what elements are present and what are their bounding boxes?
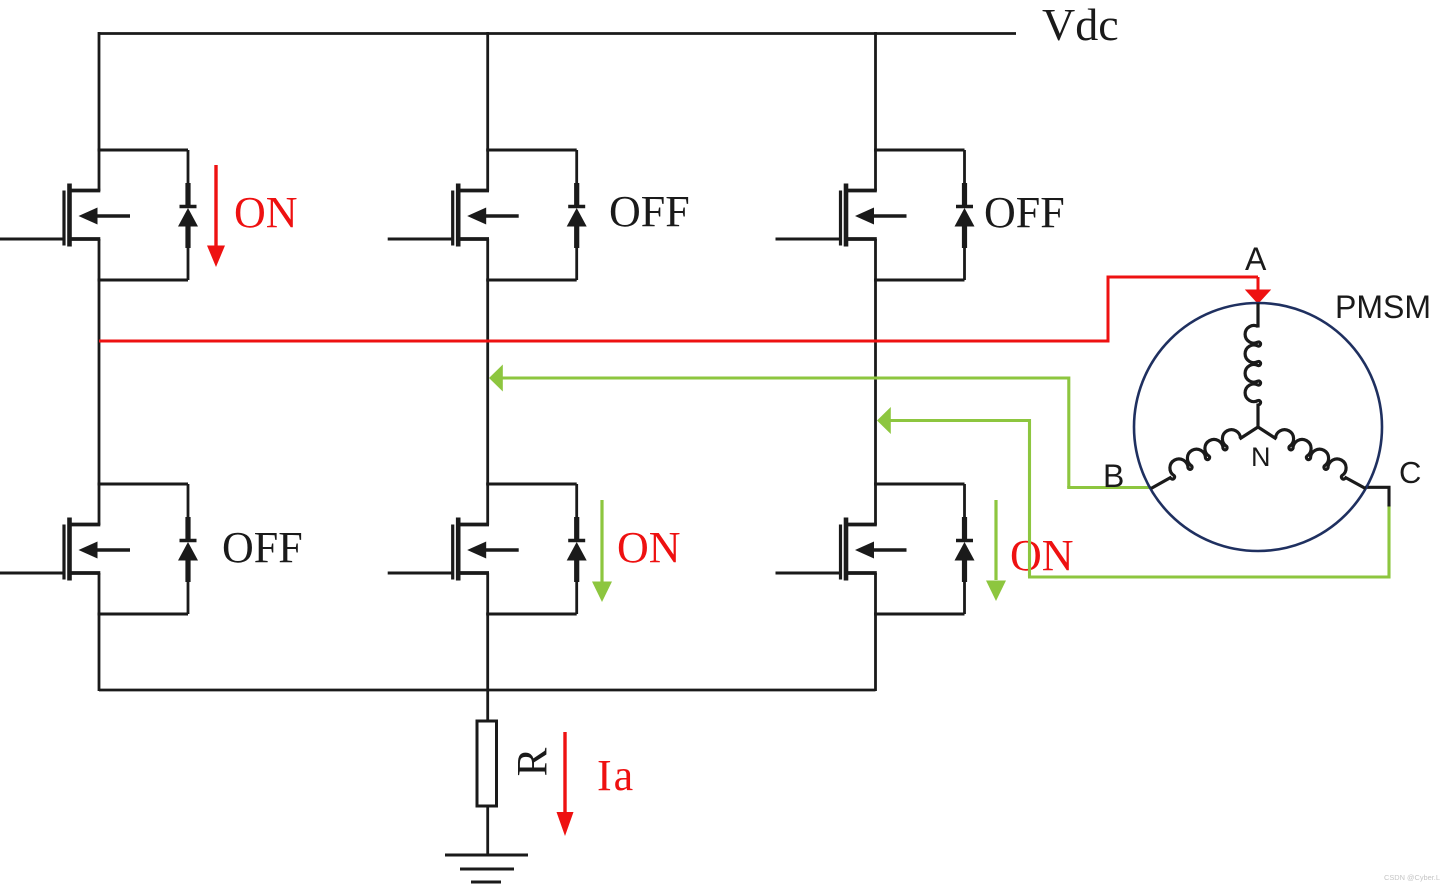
svg-text:CSDN @Cyber.L: CSDN @Cyber.L [1384,873,1440,882]
wire: phase B return current path (green) [489,365,1151,488]
svg-text:OFF: OFF [609,187,690,236]
body diode D6 [955,484,975,614]
svg-text:OFF: OFF [222,523,303,572]
wire: half-bridge cell outline Q5 [486,484,577,614]
label PMSM [1335,289,1431,325]
wire: phase A leg middle segment [98,239,101,525]
label Vdc [1042,0,1119,50]
wire: half-bridge cell outline Q1 [98,150,189,280]
wire: phase C leg lower segment [874,573,877,691]
svg-text:C: C [1399,455,1421,490]
wire: phase C leg upper segment [874,32,877,191]
svg-text:A: A [1245,241,1267,277]
wire: phase A leg lower segment [98,573,101,691]
wire: rail to shunt resistor [486,690,489,722]
current arrow through Q1 (red) [207,165,225,267]
current arrow Ia (red) [557,732,574,836]
svg-text:PMSM: PMSM [1335,289,1431,325]
transistor Q3 [776,184,907,247]
label C (phase terminal) [1399,455,1421,490]
label A (phase terminal) [1245,241,1267,277]
label ON (Q1) [234,188,298,237]
motor winding A [1245,303,1261,428]
wire: phase A current path (red) [99,276,1271,343]
wire: phase A leg upper segment [98,32,101,191]
wire: half-bridge cell outline Q6 [874,484,965,614]
label Ia [597,751,635,800]
label N (neutral point) [1251,442,1271,472]
svg-text:Vdc: Vdc [1042,0,1119,50]
motor PMSM stator circle [1134,303,1382,551]
transistor Q4 [0,518,130,581]
label OFF (Q5) [984,188,1065,237]
body diode D3 [955,150,975,280]
transistor Q2 [388,184,519,247]
motor winding C [1258,427,1366,489]
label OFF (Q3) [609,187,690,236]
wire: phase B leg upper segment [486,32,489,191]
wire: phase B leg middle segment [486,239,489,525]
resistor R (shunt) [477,721,497,806]
motor winding B [1151,427,1258,489]
body diode D1 [178,150,198,280]
current arrow through Q4 (green) [592,500,612,602]
svg-text:R: R [510,747,557,776]
current arrow through Q6 (green) [986,500,1006,601]
watermark [1384,873,1440,882]
svg-text:ON: ON [234,188,298,237]
wire: bottom dc-link rail [99,689,876,692]
svg-text:OFF: OFF [984,188,1065,237]
label ON (Q6) [1010,531,1074,580]
wire: phase C terminal lead (black) [1365,486,1391,507]
label OFF (Q2) [222,523,303,572]
svg-text:Ia: Ia [597,751,635,800]
svg-text:ON: ON [617,523,681,572]
svg-text:B: B [1103,458,1124,494]
wire: resistor to ground [486,806,489,855]
svg-text:ON: ON [1010,531,1074,580]
wire: half-bridge cell outline Q4 [98,484,189,614]
body diode D5 [567,484,587,614]
transistor Q5 [388,518,519,581]
wire: phase C leg middle segment [874,239,877,525]
transistor Q6 [776,518,907,581]
transistor Q1 [0,184,130,247]
label ON (Q4) [617,523,681,572]
wire: phase B leg lower segment [486,573,489,691]
label R [510,747,557,776]
wire: phase C return current path (green) [877,407,1389,579]
wire: half-bridge cell outline Q2 [486,150,577,280]
body diode D2 [567,150,587,280]
wire: half-bridge cell outline Q3 [874,150,965,280]
svg-text:N: N [1251,442,1271,472]
ground [445,855,528,882]
wire: Vdc positive rail [99,32,1016,35]
body diode D4 [178,484,198,614]
label B (phase terminal) [1103,458,1124,494]
